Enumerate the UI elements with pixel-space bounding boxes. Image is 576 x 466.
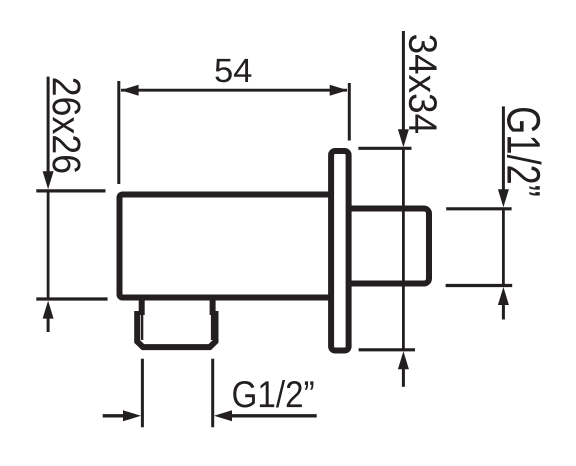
- dim 54: right extension line: [348, 83, 351, 141]
- dim 34x34: lower arrowhead: [398, 351, 409, 369]
- dim 34x34: upper arrowhead: [398, 129, 409, 147]
- bottom outlet neck: [142, 299, 213, 315]
- dim 26x26: upper leader stem: [47, 77, 50, 172]
- outlet nipple (right, G1/2 male thread): [340, 209, 429, 284]
- bottom outlet bore lines: [142, 315, 212, 340]
- dim G1/2 right: bottom tick: [446, 284, 513, 287]
- dim 54: dimension line: [121, 89, 347, 92]
- dim G1/2 bottom: label "G1/2&#8221;": [233, 380, 313, 407]
- dim 34x34: label "34x34": [409, 35, 437, 133]
- dim G1/2 right: lower arrowhead: [498, 287, 509, 305]
- dim G1/2 right: upper leader stem: [502, 106, 505, 191]
- dim G1/2 bottom: left extension line: [141, 359, 144, 428]
- dim 54: left arrowhead: [121, 85, 139, 96]
- dim G1/2 bottom: right arrowhead: [214, 410, 232, 421]
- dim 34x34: bottom tick: [359, 348, 415, 351]
- dim G1/2 bottom: left leader line: [103, 414, 126, 417]
- dim 26x26: lower leader stem: [47, 316, 50, 332]
- dim G1/2 right: upper arrowhead: [498, 189, 509, 207]
- dim 26x26: lower arrowhead: [43, 301, 54, 319]
- dim 34x34: upper leader stem: [402, 31, 405, 131]
- dim 26x26: upper arrowhead: [43, 171, 54, 189]
- dim 54: left extension line: [117, 81, 120, 184]
- dim 54: label "54": [215, 59, 251, 82]
- dim 34x34: lower leader stem: [402, 367, 405, 387]
- wall flange plate: [331, 151, 349, 351]
- dim 26x26: top tick: [36, 189, 105, 192]
- dim 34x34: through line: [402, 148, 405, 349]
- dim 34x34: top tick: [358, 147, 411, 150]
- dim G1/2 bottom: right extension line: [211, 359, 214, 428]
- dim G1/2 right: lower leader stem: [502, 303, 505, 320]
- dim 26x26: through line: [47, 191, 50, 300]
- dim G1/2 bottom: left arrowhead: [123, 410, 141, 421]
- dim 26x26: bottom tick: [36, 297, 107, 300]
- dim 54: right arrowhead: [330, 85, 348, 96]
- dim G1/2 right: label "G1/2&#8221;": [507, 108, 541, 195]
- bottom outlet union nut: [137, 311, 215, 347]
- dim G1/2 right: through line: [502, 209, 505, 286]
- dim 26x26: label "26x26": [52, 78, 80, 172]
- dim G1/2 bottom: right leader line: [230, 414, 317, 417]
- body (main square elbow housing): [120, 195, 336, 298]
- dim G1/2 right: top tick: [446, 207, 511, 210]
